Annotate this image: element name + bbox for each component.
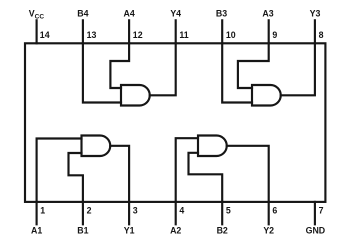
svg-text:A4: A4: [123, 9, 134, 19]
wire Y3 output (G3 nose to pin 8 line): [281, 43, 315, 95]
svg-text:B2: B2: [217, 226, 228, 236]
pin 11 stub: [175, 20, 177, 43]
svg-text:5: 5: [226, 206, 231, 216]
AND gate G1 (bottom-left): [82, 136, 111, 157]
wire B2 input (pin 5 jog to G2 lower input): [189, 153, 223, 202]
svg-text:4: 4: [179, 206, 184, 216]
svg-text:GND: GND: [306, 226, 326, 236]
svg-text:Y4: Y4: [170, 9, 181, 19]
wire B4 input (pin 13 to G4 lower input): [83, 43, 121, 102]
svg-text:3: 3: [133, 206, 138, 216]
svg-text:14: 14: [40, 30, 50, 40]
pin 1 stub: [36, 202, 38, 224]
pin 4 stub: [175, 202, 177, 224]
pin 2 stub: [82, 202, 84, 224]
svg-text:7: 7: [319, 206, 324, 216]
svg-text:6: 6: [272, 206, 277, 216]
svg-text:8: 8: [319, 30, 324, 40]
pin 3 stub: [128, 202, 130, 224]
AND gate G4 (top-left): [121, 85, 150, 106]
svg-text:Y1: Y1: [124, 226, 135, 236]
pin 6 stub: [268, 202, 270, 224]
wire A1 input (pin 1 to G1 upper input): [37, 139, 82, 202]
svg-text:13: 13: [87, 30, 97, 40]
svg-text:A2: A2: [170, 226, 181, 236]
pin 7 stub: [314, 202, 316, 224]
pin 9 stub: [268, 20, 270, 43]
svg-text:B3: B3: [216, 9, 227, 19]
svg-text:A1: A1: [31, 226, 42, 236]
svg-text:11: 11: [179, 30, 188, 40]
pin 10 stub: [221, 20, 223, 43]
wire Y4 output (G4 nose to pin 11): [150, 43, 176, 95]
svg-text:1: 1: [40, 206, 45, 216]
pin 14 stub: [36, 20, 38, 43]
AND gate G3 (top-right): [252, 85, 281, 106]
pin 8 stub: [314, 20, 316, 43]
wire A2 input (pin 4 to G2 upper input): [176, 138, 198, 202]
pin 12 stub: [128, 20, 130, 43]
svg-text:2: 2: [87, 206, 92, 216]
pin 13 stub: [82, 20, 84, 43]
svg-text:10: 10: [226, 30, 236, 40]
wire Y1 output (G1 nose to pin 3): [110, 146, 129, 202]
svg-text:B1: B1: [77, 226, 88, 236]
svg-text:B4: B4: [77, 9, 88, 19]
svg-text:Y2: Y2: [263, 226, 274, 236]
svg-text:A3: A3: [262, 9, 273, 19]
wire A4 input (pin 12 jog to G4 upper input): [110, 43, 129, 88]
svg-text:12: 12: [133, 30, 143, 40]
IC package outline: [25, 43, 325, 202]
AND gate G2 (bottom-right): [198, 136, 227, 157]
wire Y2 output (G2 nose to pin 6): [227, 146, 269, 202]
pin 5 stub: [221, 202, 223, 224]
svg-text:9: 9: [272, 30, 277, 40]
svg-text:VCC: VCC: [29, 9, 45, 21]
wire B1 input (pin 2 jog to G1 lower input): [69, 153, 83, 202]
wire B3 input (pin 10 to G3 lower input): [222, 43, 252, 102]
wire A3 input (pin 9 jog to G3 upper input): [238, 43, 269, 88]
svg-text:Y3: Y3: [310, 9, 321, 19]
